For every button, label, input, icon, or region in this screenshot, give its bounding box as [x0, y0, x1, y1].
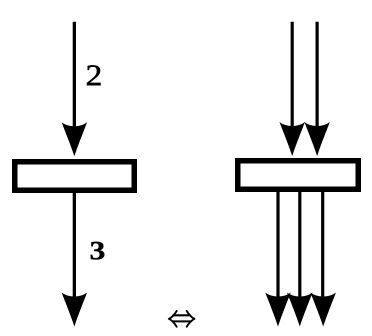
transition bar T (left) — [15, 162, 135, 191]
arrowhead of left output arc — [62, 293, 88, 327]
arrowhead of right output arc 1 — [265, 293, 291, 327]
arrowhead of right input arc 1 — [279, 122, 305, 156]
wire: right input arc line 1 — [291, 22, 294, 135]
transition bar T (right) — [238, 161, 359, 190]
wire: right output arc line 2 — [298, 191, 301, 305]
arrowhead of right output arc 3 — [310, 293, 336, 327]
wire: right output arc line 1 — [276, 191, 279, 305]
weight label 3 — [91, 242, 105, 260]
wire: right output arc line 3 — [321, 191, 324, 305]
wire: right input arc line 2 — [316, 22, 319, 135]
arrowhead of right input arc 2 — [304, 122, 330, 156]
arrowhead of left input arc — [62, 122, 88, 156]
wire: left input arc line — [73, 22, 76, 135]
arrowhead of right output arc 2 — [287, 293, 313, 327]
wire: left output arc line — [73, 192, 76, 305]
weight label 2 — [87, 65, 100, 85]
equivalence symbol ⇔ — [168, 311, 195, 327]
